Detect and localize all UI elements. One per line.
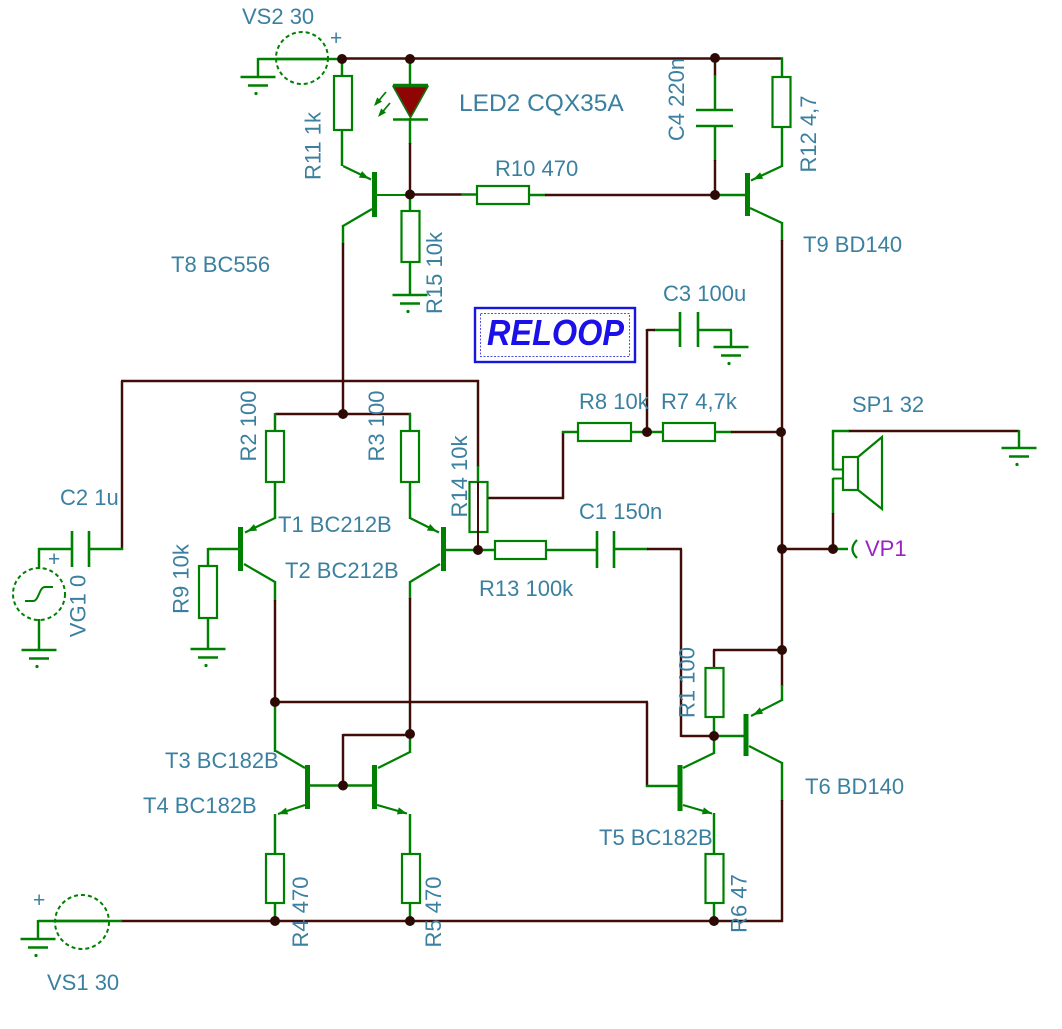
label C3 100u (663, 281, 746, 306)
label R11 1k (301, 111, 326, 180)
wire R12 bottom lead (781, 126, 783, 167)
svg-text:T3 BC182B: T3 BC182B (165, 748, 279, 773)
wire R15 top lead (409, 194, 411, 212)
wire long rail to T5 base y=702 (275, 702, 648, 787)
label SP1 32 (852, 392, 924, 417)
transistor T1 (241, 518, 276, 582)
voltage source VS2 (276, 32, 328, 84)
label R12 4,7 (796, 95, 821, 172)
svg-text:C2 1u: C2 1u (60, 485, 119, 510)
wire R2 to T1 emitter (274, 481, 276, 519)
wire R1 branch (713, 650, 782, 669)
wire R9 bottom lead (207, 617, 209, 649)
wire T9 collector lead (781, 222, 783, 241)
label R14 10k (447, 435, 472, 518)
wire R11 top lead (341, 59, 343, 77)
capacitor C1 (597, 531, 614, 568)
wire R7 to output rail (731, 431, 782, 433)
svg-text:C4 220n: C4 220n (664, 58, 689, 141)
wire C2 to input corner (89, 548, 123, 550)
wire R9 top lead (208, 548, 239, 567)
label T8 BC556 (171, 252, 270, 277)
label R15 10k (422, 231, 447, 314)
wire LED anode lead (409, 59, 411, 86)
label C2 1u (60, 485, 119, 510)
ground at R9 (191, 649, 226, 667)
svg-text:VG1 0: VG1 0 (66, 575, 91, 637)
resistor R3 (401, 431, 419, 482)
wire C2 left to VG1 (38, 548, 73, 569)
ground at VG1 (22, 650, 57, 668)
resistor R2 (266, 431, 284, 482)
voltage generator VG1 (13, 568, 65, 620)
wire C3 branch down (647, 329, 655, 433)
svg-text:R9 10k: R9 10k (169, 543, 194, 614)
svg-text:R11 1k: R11 1k (301, 111, 326, 180)
wire speaker left vertical bottom (832, 478, 834, 514)
transistor T9 (748, 166, 783, 223)
svg-text:VS1 30: VS1 30 (47, 970, 119, 995)
label R8 10k (579, 389, 650, 414)
svg-text:+: + (33, 889, 45, 912)
capacitor C4 (696, 110, 733, 126)
resistor R5 (402, 854, 420, 903)
svg-text:VP1: VP1 (865, 536, 907, 561)
wire C1 to T5 collector net (647, 549, 715, 737)
svg-text:R5 470: R5 470 (421, 877, 446, 948)
wire T6 emitter lead (781, 685, 783, 701)
wire R2 top lead (274, 413, 276, 432)
wire T2 base lead (445, 549, 479, 551)
wire T6 base lead (714, 735, 744, 737)
svg-text:T5 BC182B: T5 BC182B (599, 825, 713, 850)
label T3 BC182B (165, 748, 279, 773)
svg-text:R12 4,7: R12 4,7 (796, 95, 821, 172)
wire T5 collector lead (713, 736, 715, 754)
wire VS1 to ground step (37, 920, 39, 939)
label T5 BC182B (599, 825, 713, 850)
wire R8 left lead (562, 431, 579, 433)
resistor R15 (402, 211, 420, 262)
svg-text:R8 10k: R8 10k (579, 389, 650, 414)
wire VS1 output segment (38, 920, 122, 922)
svg-text:T4 BC182B: T4 BC182B (143, 793, 257, 818)
wire R10 left lead (461, 193, 478, 195)
speaker SP1 (833, 437, 882, 509)
RELOOP logo (475, 308, 635, 362)
ground at VS2 (241, 77, 276, 95)
wire base node to R10 (409, 193, 462, 195)
wire output to probe (782, 548, 834, 550)
wire T1 collector down (274, 600, 276, 703)
svg-text:R6 47: R6 47 (727, 874, 752, 933)
ground at C3 (714, 347, 749, 365)
wire LED cathode down green (409, 118, 411, 144)
wire T1 collector to T3 (274, 702, 276, 752)
wire C3 right lead (697, 330, 732, 347)
capacitor C3 (680, 312, 698, 347)
resistor R10 (477, 186, 529, 204)
resistor R6 (706, 854, 724, 903)
svg-text:VS2 30: VS2 30 (242, 4, 314, 29)
wire VS2 output segment (258, 58, 343, 60)
wire C1 right lead (613, 548, 648, 550)
wire T6 collector lead (781, 762, 783, 801)
svg-text:R7 4,7k: R7 4,7k (661, 389, 738, 414)
wire T2 collector down (409, 598, 411, 735)
voltage pin VP1 (853, 540, 858, 558)
wire R12 top lead corner (781, 58, 783, 78)
wire R15 bottom lead (409, 261, 411, 295)
ground at R15 (393, 295, 428, 313)
wire top supply rail y=58 (342, 57, 783, 59)
wire T3 emitter down (274, 814, 276, 855)
label T2 BC212B (285, 558, 399, 583)
wire R8 branch (478, 431, 564, 499)
wire R5 bottom lead (409, 903, 411, 922)
wire T3 T4 base link (310, 784, 373, 786)
label R2 100 (236, 391, 261, 462)
LED light arrows (374, 92, 390, 117)
wire T6 collector down (781, 800, 783, 922)
wire R11 bottom lead (341, 129, 343, 166)
wire C4 bottom lead green (714, 126, 716, 161)
svg-text:LED2 CQX35A: LED2 CQX35A (459, 90, 624, 117)
wire R10 to T9 base node (545, 194, 716, 196)
svg-text:T8 BC556: T8 BC556 (171, 252, 270, 277)
wire speaker to output node (832, 513, 834, 550)
wire R3 top lead (409, 413, 411, 432)
wire R10 right lead (528, 194, 546, 196)
wire R7 left lead (646, 431, 664, 433)
svg-text:C3 100u: C3 100u (663, 281, 746, 306)
wire T5 emitter to R6 (713, 813, 715, 855)
wire T3 T4 base tie (343, 734, 411, 786)
svg-text:+: + (48, 548, 60, 571)
svg-text:SP1 32: SP1 32 (852, 392, 924, 417)
label VP1 (865, 536, 907, 561)
svg-text:+: + (330, 27, 342, 50)
ground at SP1 (1002, 448, 1037, 466)
resistor R13 (495, 541, 546, 559)
svg-text:R15 10k: R15 10k (422, 231, 447, 314)
label T1 BC212B (278, 512, 392, 537)
label R1 100 (675, 647, 700, 718)
resistor R7 (663, 423, 715, 441)
wire T9 base lead (715, 194, 746, 196)
wire speaker top green ends (832, 430, 1019, 448)
wire T8 collector lead (342, 225, 344, 244)
plus sign VS2 (330, 27, 342, 50)
plus sign VG1 (48, 548, 60, 571)
wire output rail x=782 (781, 240, 783, 686)
wire T2 collector to T4 (409, 734, 411, 753)
wire R14 top lead maroon (477, 380, 479, 467)
svg-text:C1 150n: C1 150n (579, 499, 662, 524)
label VG1 0 (66, 575, 91, 637)
transistor T4 (375, 752, 411, 814)
label T6 BD140 (805, 774, 904, 799)
wire T1 collector lead (274, 581, 276, 601)
LED D2 CQX35A (393, 85, 428, 120)
wire LED cathode to base node (409, 143, 411, 195)
svg-text:T9 BD140: T9 BD140 (803, 232, 902, 257)
wire through R14 (477, 482, 479, 551)
label T9 BD140 (803, 232, 902, 257)
plus sign VS1 (33, 889, 45, 912)
resistor R1 (706, 668, 724, 717)
svg-text:R2 100: R2 100 (236, 391, 261, 462)
capacitor C2 (72, 531, 89, 567)
label LED2 CQX35A (459, 90, 624, 117)
resistor R9 (199, 566, 217, 618)
label C1 150n (579, 499, 662, 524)
wire R14 top lead green (477, 466, 479, 483)
label R10 470 (495, 156, 578, 181)
label R13 100k (479, 576, 574, 601)
wire R7 right lead (714, 431, 732, 433)
svg-text:R3 100: R3 100 (364, 391, 389, 462)
voltage source VS1 (55, 895, 109, 949)
svg-text:R4 470: R4 470 (288, 877, 313, 948)
svg-text:T6 BD140: T6 BD140 (805, 774, 904, 799)
svg-text:R14 10k: R14 10k (447, 435, 472, 518)
wire C3 left lead (654, 329, 681, 331)
label R4 470 (288, 877, 313, 948)
svg-text:T1 BC212B: T1 BC212B (278, 512, 392, 537)
wire R3 to T2 emitter (409, 481, 411, 519)
wire probe lead (833, 548, 848, 550)
wire R13 left lead (478, 549, 496, 551)
label R5 470 (421, 877, 446, 948)
transistor T2 (410, 518, 444, 582)
resistor R14 (470, 482, 488, 532)
wire T2 collector lead (409, 581, 411, 599)
transistor T5 (680, 753, 714, 814)
label T4 BC182B (143, 793, 257, 818)
wire R1 bottom lead (713, 716, 715, 737)
label R6 47 (727, 874, 752, 933)
wire C4 top lead (714, 58, 716, 76)
resistor R12 (773, 77, 791, 127)
transistor T8 (343, 166, 411, 226)
wire R8 right lead (630, 431, 648, 433)
label R3 100 (364, 391, 389, 462)
wire C4 top lead green (714, 75, 716, 110)
wire R4 bottom lead (274, 903, 276, 922)
wire VG1 bottom lead (38, 619, 40, 650)
wire speaker top rail (848, 430, 1019, 432)
resistor R4 (266, 854, 284, 903)
resistor R8 (578, 423, 631, 441)
label R7 4,7k (661, 389, 738, 414)
ground at VS1 (21, 939, 56, 957)
wire speaker left vertical top (832, 430, 834, 470)
wire T4 emitter down (409, 814, 411, 855)
wire R13 right lead (545, 549, 598, 551)
wire bottom rail y=921 (121, 920, 783, 922)
wire T8 collector to diff pair (342, 243, 344, 415)
wire diff supply rail y=414 (275, 413, 411, 415)
transistor T3 (276, 751, 308, 814)
wire C4 bottom to node (714, 160, 716, 196)
wire VS2 to ground step (257, 58, 259, 77)
label VS2 30 (242, 4, 314, 29)
svg-text:T2 BC212B: T2 BC212B (285, 558, 399, 583)
transistor T6 (746, 700, 782, 763)
svg-text:R13 100k: R13 100k (479, 576, 574, 601)
label R9 10k (169, 543, 194, 614)
label VS1 30 (47, 970, 119, 995)
svg-text:R1 100: R1 100 (675, 647, 700, 718)
wire R6 bottom lead (713, 903, 715, 922)
wire input top rail y=381 (121, 381, 479, 550)
label C4 220n (664, 58, 689, 141)
wire T5 base lead (646, 785, 678, 787)
resistor R11 (334, 76, 352, 130)
svg-text:R10 470: R10 470 (495, 156, 578, 181)
svg-text:RELOOP: RELOOP (487, 312, 625, 353)
